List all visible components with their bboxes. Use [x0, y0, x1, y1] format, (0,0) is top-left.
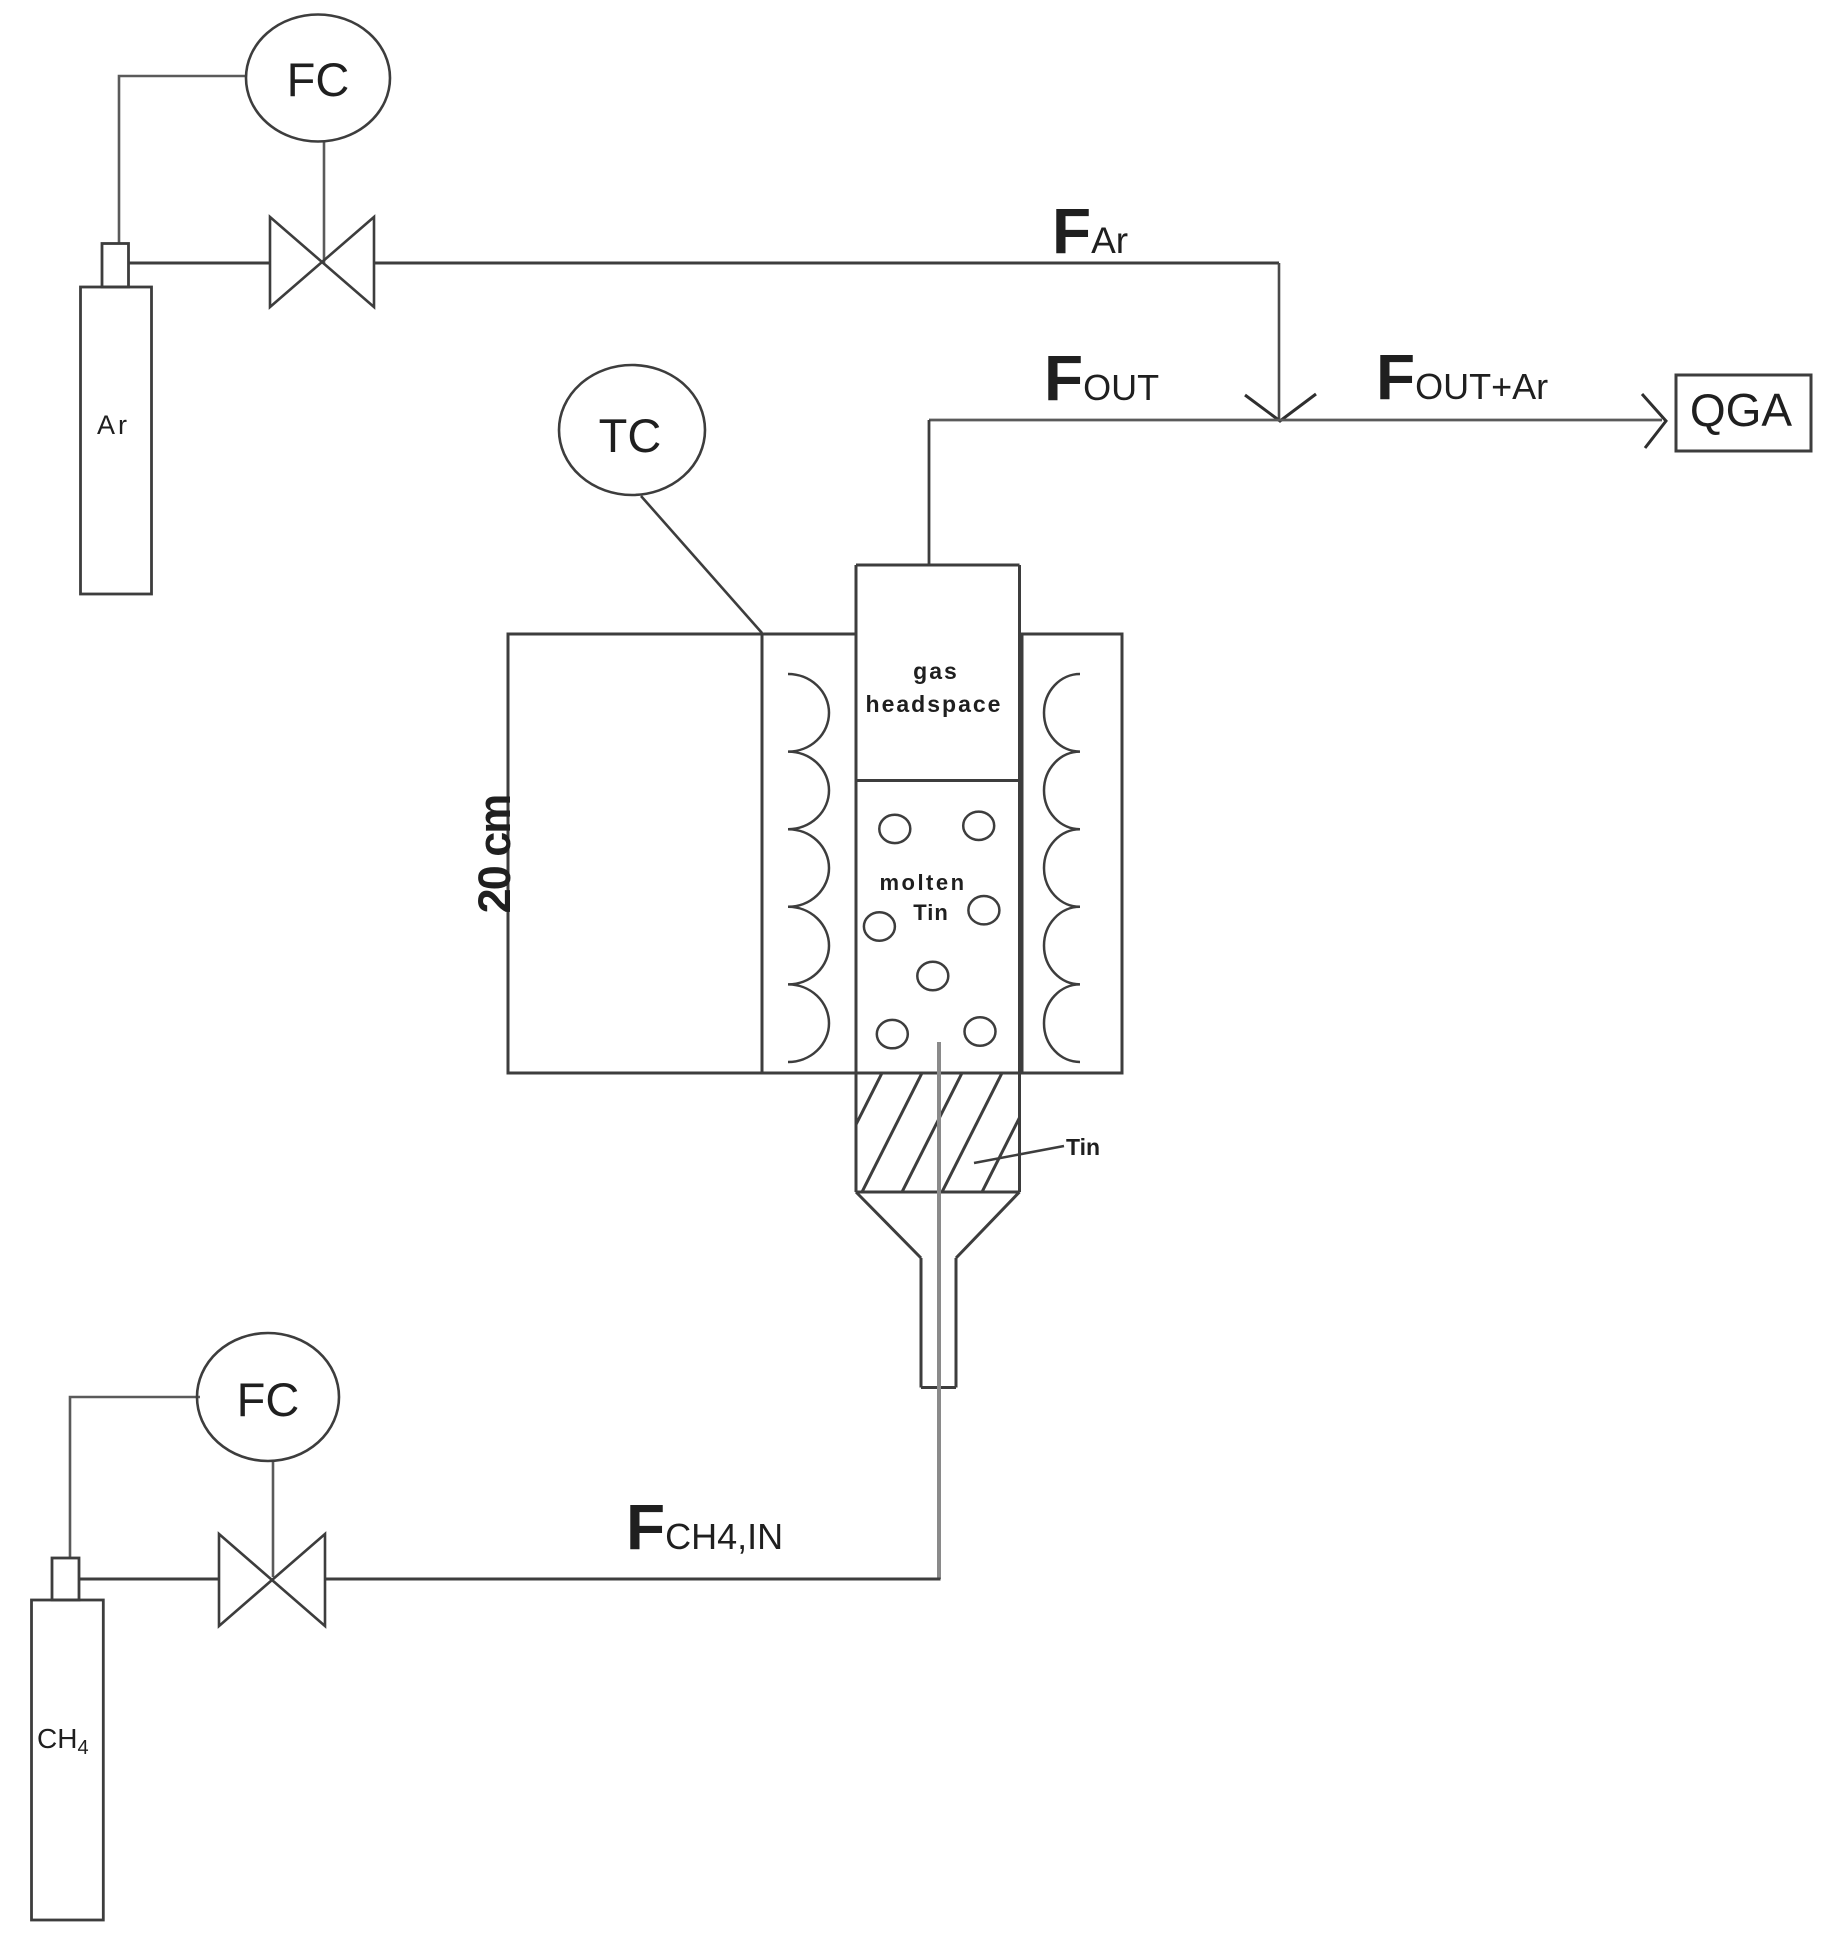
svg-text:FAr: FAr — [1052, 195, 1128, 267]
svg-text:Tin: Tin — [913, 900, 949, 925]
svg-text:FOUT+Ar: FOUT+Ar — [1376, 341, 1548, 413]
svg-text:Tin: Tin — [1066, 1134, 1100, 1160]
svg-text:CH4: CH4 — [37, 1723, 89, 1759]
svg-text:TC: TC — [599, 409, 662, 462]
svg-text:gas: gas — [913, 658, 959, 684]
svg-text:FC: FC — [237, 1373, 300, 1426]
svg-text:Ar: Ar — [97, 410, 130, 440]
svg-text:FCH4,IN: FCH4,IN — [626, 1491, 783, 1563]
svg-text:FC: FC — [287, 53, 350, 106]
svg-text:20 cm: 20 cm — [469, 796, 520, 914]
svg-text:molten: molten — [879, 870, 966, 895]
svg-text:QGA: QGA — [1690, 384, 1793, 436]
svg-text:FOUT: FOUT — [1044, 342, 1159, 414]
svg-text:headspace: headspace — [866, 691, 1003, 717]
